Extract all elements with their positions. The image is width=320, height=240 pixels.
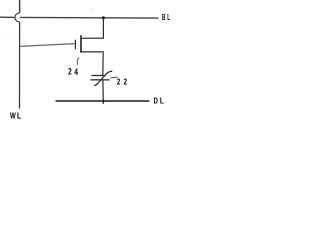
wire: drain of transistor 24 up to BL [81, 18, 103, 38]
wire: data line DL horizontal [56, 100, 150, 102]
capacitor 22 top plate [92, 75, 105, 77]
wire: bit line BL horizontal [0, 16, 159, 19]
leader line for label 24 [77, 58, 79, 65]
svg-text:D: D [154, 97, 158, 106]
svg-text:L: L [160, 97, 164, 106]
node: junction dot BL / drain [102, 16, 105, 19]
svg-text:W: W [10, 111, 16, 120]
svg-text:2: 2 [117, 77, 121, 87]
label 2 4 [68, 67, 78, 78]
transistor 24 gate plate [74, 40, 76, 49]
svg-text:2: 2 [68, 67, 72, 78]
crossover hop (WL jumps BL, no connection) [15, 13, 20, 22]
svg-text:B: B [162, 13, 166, 22]
wire: source of transistor 24 down to capacitor 22 [81, 52, 103, 76]
transistor 24 channel bar [80, 35, 82, 53]
speck [92, 9, 93, 10]
svg-text:4: 4 [74, 67, 78, 78]
label B L [162, 13, 170, 22]
svg-text:L: L [17, 111, 22, 120]
leader line for label 22 [111, 76, 118, 79]
svg-text:L: L [167, 13, 170, 22]
node: junction dot DL [102, 100, 105, 103]
speck [7, 33, 8, 34]
label W L [10, 111, 21, 121]
capacitor 22 nonlinear arrow (diagonal) [94, 71, 112, 85]
capacitor 22 bottom plate [91, 79, 110, 81]
wire: capacitor 22 down to data line DL [102, 80, 104, 104]
svg-text:2: 2 [124, 77, 128, 87]
label 2 2 [117, 77, 128, 87]
wire: gate lead from WL to transistor 24 [20, 44, 75, 47]
wire: word line WL vertical [19, 0, 21, 109]
label D L [154, 97, 164, 106]
